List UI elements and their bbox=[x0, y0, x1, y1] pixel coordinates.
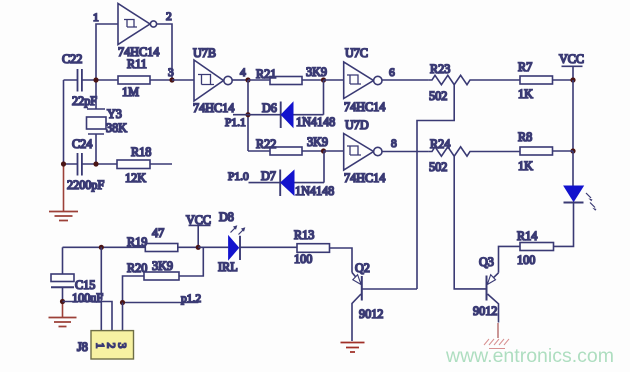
svg-text:3K9: 3K9 bbox=[306, 65, 327, 79]
svg-text:1M: 1M bbox=[122, 85, 139, 99]
node P1.1 junction bbox=[245, 112, 250, 117]
svg-text:2200pF: 2200pF bbox=[67, 178, 104, 192]
resistor R14 bbox=[499, 243, 554, 273]
resistor R22 bbox=[248, 147, 324, 155]
wire U7A input from node A bbox=[96, 24, 118, 80]
diode D8 (IRL LED) bbox=[198, 225, 297, 260]
node R18 left junction bbox=[93, 161, 98, 166]
svg-text:1: 1 bbox=[93, 12, 99, 24]
power VCC (top right) bbox=[562, 66, 583, 80]
LED D (right, pointing down) bbox=[564, 186, 597, 211]
ground below C24 bbox=[49, 164, 78, 221]
svg-text:38K: 38K bbox=[106, 121, 127, 135]
wire U7B output to node 4 bbox=[232, 79, 248, 81]
wire J8 pin2 to C15 bbox=[63, 302, 113, 331]
node R19 right / VCC / D8 bbox=[196, 245, 201, 250]
wire LED to R14 bbox=[554, 203, 574, 247]
svg-text:6: 6 bbox=[389, 67, 395, 79]
op-amp U7C bbox=[344, 62, 382, 99]
wire U7C output (node 6) bbox=[382, 79, 429, 81]
resistor R13 bbox=[297, 244, 352, 273]
svg-text:Q3: Q3 bbox=[479, 255, 494, 269]
svg-text:D6: D6 bbox=[262, 101, 277, 115]
wire U7D output (node 8) bbox=[382, 151, 429, 153]
svg-text:R20: R20 bbox=[127, 261, 147, 275]
svg-text:VCC: VCC bbox=[186, 213, 211, 227]
svg-text:12K: 12K bbox=[125, 171, 146, 185]
svg-text:IRL: IRL bbox=[218, 260, 238, 274]
node R21 right bbox=[321, 77, 326, 82]
svg-text:9012: 9012 bbox=[359, 307, 383, 321]
crystal Y3 bbox=[87, 80, 107, 164]
node R22 right bbox=[321, 148, 326, 153]
capacitor C22 bbox=[64, 69, 97, 92]
svg-text:502: 502 bbox=[429, 160, 447, 174]
ground below C15 bbox=[49, 318, 77, 327]
svg-text:2: 2 bbox=[166, 11, 172, 23]
svg-text:R8: R8 bbox=[518, 130, 532, 144]
svg-text:100: 100 bbox=[294, 252, 312, 266]
svg-text:R14: R14 bbox=[517, 229, 537, 243]
svg-text:C24: C24 bbox=[72, 137, 92, 151]
wire node R21-right to U7C input bbox=[324, 79, 344, 81]
svg-text:3: 3 bbox=[168, 67, 174, 79]
power VCC (middle) bbox=[189, 225, 211, 247]
capacitor C24 bbox=[64, 153, 97, 176]
node C24 left junction bbox=[61, 161, 66, 166]
wire node 3 to U7B input bbox=[172, 79, 194, 81]
node J8 pin3 junction bbox=[120, 300, 125, 305]
svg-text:4: 4 bbox=[240, 67, 246, 79]
svg-text:1K: 1K bbox=[518, 159, 533, 173]
wire VCC rail down to R8 bbox=[572, 80, 574, 151]
svg-text:9012: 9012 bbox=[473, 304, 497, 318]
svg-text:p1.2: p1.2 bbox=[181, 293, 201, 305]
op-amp U7D bbox=[344, 134, 382, 171]
svg-text:Q2: Q2 bbox=[355, 261, 370, 275]
svg-text:2: 2 bbox=[105, 343, 117, 349]
resistor R20 bbox=[123, 247, 204, 302]
svg-text:P1.0: P1.0 bbox=[228, 171, 249, 183]
wire VCC rail down to LED bbox=[572, 151, 574, 186]
node J8 pin1 junction bbox=[99, 245, 104, 250]
ground (Q2) bbox=[341, 343, 365, 353]
svg-text:47: 47 bbox=[152, 226, 164, 240]
node 3 (junction R11/R18/U7B in) bbox=[169, 77, 174, 82]
connector J8 bbox=[91, 331, 134, 359]
svg-text:C22: C22 bbox=[62, 52, 82, 66]
svg-text:1N4148: 1N4148 bbox=[295, 184, 334, 198]
node R8 right bbox=[570, 148, 575, 153]
wire J8 pin3 bbox=[122, 303, 124, 331]
diode D7 (1N4148) bbox=[249, 151, 325, 196]
svg-text:VCC: VCC bbox=[559, 52, 584, 66]
svg-text:1: 1 bbox=[94, 343, 106, 349]
resistor R11 bbox=[96, 76, 172, 84]
op-amp U7B (74HC14 schmitt inverter) bbox=[194, 60, 232, 101]
op-amp U7A (74HC14 schmitt inverter, pins 1-2) bbox=[118, 4, 157, 45]
node A (junction C22/R11/Y3) bbox=[93, 77, 98, 82]
wire long rail y=247 (C15/J8 rail) bbox=[63, 246, 146, 248]
svg-text:R24: R24 bbox=[430, 137, 450, 151]
wire R23 tap to Q2 base column bbox=[417, 84, 454, 289]
resistor R18 bbox=[96, 160, 172, 169]
node C15 bottom / J8 pin2 bbox=[60, 299, 65, 304]
svg-text:1K: 1K bbox=[518, 87, 533, 101]
resistor R21 bbox=[248, 77, 324, 85]
svg-text:D8: D8 bbox=[219, 210, 234, 224]
resistor R19 bbox=[145, 244, 198, 252]
svg-text:www.entronics.com: www.entronics.com bbox=[445, 345, 614, 367]
svg-text:P1.1: P1.1 bbox=[225, 117, 246, 129]
node R7 right / VCC bbox=[570, 77, 575, 82]
ground (Q3, faint) bbox=[484, 323, 509, 349]
svg-text:1N4148: 1N4148 bbox=[296, 115, 335, 129]
svg-text:R11: R11 bbox=[127, 57, 147, 71]
transistor Q3 (9012 PNP) bbox=[487, 273, 499, 323]
svg-text:R22: R22 bbox=[256, 137, 276, 151]
svg-text:D7: D7 bbox=[261, 169, 276, 183]
svg-text:R21: R21 bbox=[256, 67, 276, 81]
node 4 bbox=[245, 77, 250, 82]
svg-text:Y3: Y3 bbox=[107, 107, 122, 121]
resistor R23 (zigzag) bbox=[429, 75, 520, 84]
svg-text:R18: R18 bbox=[131, 145, 151, 159]
svg-text:74HC14: 74HC14 bbox=[193, 101, 234, 115]
svg-text:R13: R13 bbox=[294, 228, 314, 242]
capacitor C15 (electrolytic) bbox=[51, 247, 74, 317]
svg-text:502: 502 bbox=[429, 89, 447, 103]
svg-text:3: 3 bbox=[116, 343, 128, 349]
svg-text:22pF: 22pF bbox=[72, 94, 97, 108]
wire R24 tap to Q3 base bbox=[454, 156, 486, 289]
resistor R8 bbox=[520, 147, 573, 155]
svg-text:C15: C15 bbox=[75, 278, 95, 292]
wire left rail down from C22 to C24 bbox=[63, 80, 65, 164]
wire node R22-right to U7D input bbox=[324, 150, 344, 152]
svg-text:R23: R23 bbox=[430, 62, 450, 76]
svg-text:R7: R7 bbox=[518, 60, 532, 74]
wire p1.2 stub bbox=[123, 302, 199, 304]
svg-text:3K9: 3K9 bbox=[307, 135, 328, 149]
svg-text:R19: R19 bbox=[127, 235, 147, 249]
svg-text:100: 100 bbox=[517, 253, 535, 267]
svg-text:U7D: U7D bbox=[345, 118, 369, 132]
svg-text:100uF: 100uF bbox=[72, 291, 103, 305]
svg-text:74HC14: 74HC14 bbox=[344, 171, 385, 185]
svg-text:J8: J8 bbox=[77, 340, 88, 354]
wire U7A output to node 3 bbox=[157, 24, 172, 80]
svg-text:74HC14: 74HC14 bbox=[344, 100, 385, 114]
svg-text:U7B: U7B bbox=[193, 46, 216, 60]
svg-text:3K9: 3K9 bbox=[152, 259, 173, 273]
resistor R24 (zigzag) bbox=[429, 147, 520, 156]
resistor R7 bbox=[520, 76, 573, 84]
diode D6 (1N4148) bbox=[233, 80, 324, 128]
wire J8 pin1 bbox=[100, 247, 102, 330]
transistor Q2 (9012 PNP) bbox=[352, 273, 417, 342]
svg-text:8: 8 bbox=[391, 138, 397, 150]
svg-text:U7C: U7C bbox=[345, 46, 368, 60]
wire node4 down to R22 level bbox=[247, 80, 249, 151]
